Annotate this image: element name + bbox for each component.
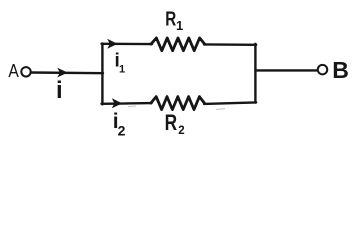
svg-text:B: B [332,57,349,83]
arrow current i [57,68,68,78]
resistor R1 [151,38,205,51]
arrow current i2 [112,98,122,108]
svg-text:A: A [8,61,18,81]
wire bottom branch right [204,102,256,104]
terminal B [318,65,328,75]
svg-text:2: 2 [178,125,184,137]
svg-text:R: R [165,9,176,31]
svg-text:i: i [56,77,63,104]
wire top branch left [102,43,153,46]
svg-text:R: R [165,110,178,135]
scan smudge left of R2 zigzag [128,105,136,108]
svg-text:1: 1 [119,64,125,76]
terminal A [21,67,30,76]
wire bottom branch left [102,102,152,105]
svg-text:2: 2 [118,123,126,139]
resistor R2 [151,97,205,110]
svg-text:1: 1 [176,18,183,33]
wire top branch right [204,43,256,46]
scan smudge under bottom wire [216,109,225,110]
wire A to left junction [31,71,103,74]
wire right junction to B [255,69,317,71]
node right junction vertical [254,44,256,103]
node left junction vertical [101,43,103,104]
arrow current i1 [107,39,117,49]
